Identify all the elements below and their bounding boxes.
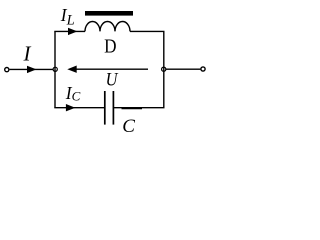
svg-text:IC: IC (65, 83, 81, 104)
svg-text:U: U (106, 70, 119, 91)
node left junction (53, 67, 57, 71)
svg-text:D: D (104, 36, 116, 57)
voltage arrow U head (67, 66, 76, 73)
wire top left (54, 30, 85, 32)
wire bottom left (54, 107, 104, 109)
current arrow IL (68, 28, 77, 35)
wire input (10, 68, 53, 70)
wire bottom right (114, 107, 165, 109)
capacitor C right plate (112, 91, 114, 125)
wire top right (130, 30, 165, 32)
inductor core bar (85, 11, 133, 16)
node right junction (162, 67, 166, 71)
svg-text:C: C (122, 116, 135, 137)
inductor D coil (85, 22, 130, 32)
terminal left (5, 68, 9, 72)
svg-text:I: I (23, 41, 32, 65)
current arrow IC (66, 104, 75, 111)
capacitor C left plate (104, 91, 106, 125)
svg-text:IL: IL (60, 5, 75, 29)
terminal right (201, 67, 205, 71)
wire bottom thick segment (122, 107, 143, 109)
wire output (166, 68, 200, 70)
voltage arrow U line (76, 68, 148, 70)
wire right vertical (163, 31, 165, 107)
current arrow I (27, 66, 36, 73)
wire left vertical (54, 31, 56, 107)
